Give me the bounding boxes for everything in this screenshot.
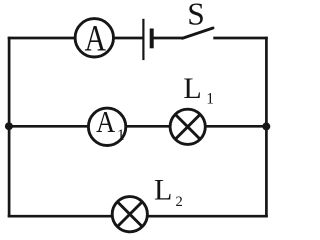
svg-text:1: 1 [206,91,214,108]
switch S blade (open) [183,28,214,38]
svg-text:S: S [187,0,205,31]
wire middle-right: lamp L1 to right junction [206,125,266,128]
wire left vertical side [8,37,11,218]
svg-text:A: A [96,105,115,139]
wire: ammeter A1 to lamp L1 [127,125,170,128]
svg-text:L: L [154,173,172,206]
wire bottom-left: left corner to lamp L2 [8,215,112,218]
wire middle-left: left junction to ammeter A1 [9,125,88,128]
label L1 [183,72,214,108]
svg-text:2: 2 [176,194,183,210]
wire: switch contact to top-right corner [213,37,267,40]
svg-text:A: A [85,19,106,60]
ammeter A1 [88,105,125,146]
wire: battery to switch pivot [152,37,184,40]
lamp L2 [112,197,147,232]
lamp L1 [170,109,205,144]
junction node left [5,122,13,130]
battery cell: short thick plate [150,29,154,49]
svg-text:L: L [183,72,201,105]
wire bottom-right: lamp L2 to right corner [148,215,267,218]
junction node right [262,122,270,130]
label L2 [154,173,183,210]
wire right vertical side [265,37,268,218]
wire top-left: left corner to ammeter A [8,37,75,40]
ammeter A [75,19,113,60]
wire: ammeter A to battery [114,37,143,40]
svg-text:1: 1 [117,127,125,144]
battery cell: long thin plate [142,19,144,60]
